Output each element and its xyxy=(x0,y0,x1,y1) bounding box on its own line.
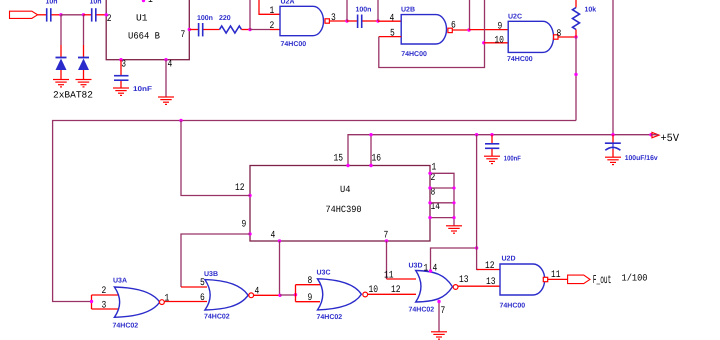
svg-text:74HC390: 74HC390 xyxy=(326,204,362,215)
svg-text:1: 1 xyxy=(432,162,437,173)
nand U2D xyxy=(485,256,561,310)
node junction xyxy=(490,133,493,136)
svg-text:5: 5 xyxy=(390,29,395,40)
nand U2C xyxy=(494,13,561,63)
wire U2B pin5 loop xyxy=(379,0,485,68)
wire U4 pin7 riser to U3D pin11 xyxy=(387,241,417,279)
wire to U2B pin4 xyxy=(378,20,401,22)
node U4 pin15 xyxy=(346,164,349,167)
node U1 pin3 xyxy=(119,58,122,61)
svg-text:14: 14 xyxy=(431,202,441,213)
ground xyxy=(53,80,69,87)
node junction xyxy=(294,293,297,296)
ground xyxy=(158,97,174,104)
diode D1 BAT82 xyxy=(56,15,67,80)
svg-text:12: 12 xyxy=(485,261,495,272)
node junction xyxy=(611,133,614,136)
svg-text:2: 2 xyxy=(431,173,436,184)
ladder junctions right xyxy=(452,186,455,189)
node junction xyxy=(179,119,182,122)
svg-text:74HC02: 74HC02 xyxy=(113,323,139,330)
wire +5V to U2D pin12 xyxy=(477,135,500,270)
wire U4 pin12 xyxy=(181,121,250,196)
nor U3D xyxy=(384,263,469,318)
svg-text:3: 3 xyxy=(331,13,336,24)
wire xyxy=(469,29,508,31)
wire xyxy=(38,14,46,16)
resistor R1 220 xyxy=(219,15,242,33)
wire U3D pin7 GND xyxy=(438,302,440,332)
svg-text:4: 4 xyxy=(168,60,173,71)
wire U2A out xyxy=(330,20,348,22)
svg-text:8: 8 xyxy=(308,276,313,287)
wire U4 pin9 to U3B pin5 xyxy=(181,234,250,287)
wire xyxy=(52,14,62,16)
node U1 pin4 xyxy=(164,58,167,61)
node junction xyxy=(369,133,372,136)
node junction xyxy=(467,28,470,31)
node U1 pin1 top xyxy=(142,0,145,2)
svg-text:74HC02: 74HC02 xyxy=(409,306,435,313)
ground xyxy=(605,157,621,164)
svg-text:12: 12 xyxy=(235,183,245,194)
node junction xyxy=(475,133,478,136)
node U3D pin7 xyxy=(437,300,440,303)
svg-text:74HC00: 74HC00 xyxy=(281,41,307,48)
svg-text:10n: 10n xyxy=(90,0,102,6)
node junction xyxy=(649,133,652,136)
svg-text:100uF/16v: 100uF/16v xyxy=(625,154,658,162)
node junction xyxy=(59,13,62,16)
svg-text:1: 1 xyxy=(148,0,153,6)
svg-text:100nF: 100nF xyxy=(504,156,522,163)
svg-text:6: 6 xyxy=(200,293,205,304)
wire +5V riser from top xyxy=(612,0,614,135)
node U4 pin9 xyxy=(248,232,251,235)
wire riser xyxy=(469,0,471,30)
svg-text:13: 13 xyxy=(459,275,469,286)
+5V arrow xyxy=(651,132,679,145)
node U4 pin1 xyxy=(428,172,431,175)
svg-text:2xBAT82: 2xBAT82 xyxy=(53,90,93,101)
wire riser xyxy=(346,0,348,21)
node junction xyxy=(345,19,348,22)
wire U2A pin1 xyxy=(259,0,280,14)
wire pin16 riser xyxy=(370,135,372,166)
svg-text:+5V: +5V xyxy=(661,133,680,145)
svg-text:U2D: U2D xyxy=(502,256,516,263)
node U4 pin4 xyxy=(278,239,281,242)
svg-text:10n: 10n xyxy=(46,0,58,6)
wire to U2A pin2 xyxy=(250,29,270,31)
resistor R2 10k xyxy=(573,0,597,37)
ground xyxy=(113,88,129,95)
IC U1 U664B xyxy=(106,0,189,71)
node U4 pin7 xyxy=(385,239,388,242)
nand U2B xyxy=(390,7,456,58)
U4 right ladder pins 1,2,8,14 xyxy=(430,173,454,226)
node junction xyxy=(376,19,379,22)
capacitor C5 100n xyxy=(356,6,372,28)
wire xyxy=(347,20,357,22)
ground xyxy=(446,226,462,233)
capacitor C1 10n xyxy=(46,0,58,22)
svg-text:5: 5 xyxy=(200,278,205,289)
svg-text:16: 16 xyxy=(372,154,382,165)
svg-text:4: 4 xyxy=(390,13,395,24)
node junction xyxy=(475,246,478,249)
wire U4 pin4 riser xyxy=(279,241,281,295)
wire xyxy=(84,14,92,16)
wire xyxy=(280,294,296,296)
svg-text:74HC00: 74HC00 xyxy=(507,56,533,63)
svg-text:15: 15 xyxy=(334,154,344,165)
svg-text:100n: 100n xyxy=(197,15,213,22)
wire U3A out to U3B pin6 xyxy=(164,301,207,303)
svg-text:U1: U1 xyxy=(136,13,148,24)
input connector tag xyxy=(10,11,38,18)
node junction xyxy=(82,13,85,16)
capacitor C2 10n xyxy=(90,0,102,22)
node junction xyxy=(574,73,577,76)
svg-text:1/100: 1/100 xyxy=(622,273,648,284)
wire xyxy=(97,14,107,16)
nor U3C xyxy=(296,270,379,322)
nand U2A xyxy=(270,0,336,48)
wire xyxy=(362,20,378,22)
wire feedback long xyxy=(53,37,576,302)
ground xyxy=(76,80,92,87)
capacitor C6 100nF xyxy=(485,135,521,163)
wire U3B out xyxy=(254,294,280,296)
wire U1 pin4 xyxy=(165,60,167,97)
diode D2 BAT82 xyxy=(78,15,89,80)
nor U3B xyxy=(200,271,259,321)
svg-text:10: 10 xyxy=(494,35,504,46)
svg-text:7: 7 xyxy=(181,30,186,41)
wire riser xyxy=(249,0,251,30)
wire U3C out to U3D pin12 xyxy=(368,293,416,295)
wire xyxy=(61,14,84,16)
svg-text:10nF: 10nF xyxy=(133,86,153,93)
svg-text:U664 B: U664 B xyxy=(128,31,160,42)
svg-text:9: 9 xyxy=(242,220,247,231)
node U4 pin8 xyxy=(428,201,431,204)
wire U2B out to U2C pin9 xyxy=(453,29,470,31)
node junction xyxy=(278,294,281,297)
svg-text:12: 12 xyxy=(391,285,401,296)
svg-text:U3C: U3C xyxy=(317,270,331,277)
capacitor C7 100uF/16v xyxy=(605,135,658,163)
node U4 pin2 xyxy=(428,186,431,189)
svg-text:10k: 10k xyxy=(585,6,597,14)
svg-text:100n: 100n xyxy=(356,6,372,13)
ground xyxy=(431,332,447,339)
svg-text:1: 1 xyxy=(270,6,275,17)
svg-text:F_out: F_out xyxy=(593,273,612,287)
svg-text:U3A: U3A xyxy=(113,278,127,285)
svg-text:U4: U4 xyxy=(340,184,351,195)
node U4 pin14 xyxy=(428,216,431,219)
svg-text:4: 4 xyxy=(433,264,438,275)
wire U3D out to U2D pin13 xyxy=(458,285,500,287)
output connector tag F_out xyxy=(568,273,648,288)
svg-text:U2B: U2B xyxy=(401,7,415,14)
svg-text:U3B: U3B xyxy=(204,271,218,278)
svg-text:74HC02: 74HC02 xyxy=(317,314,343,321)
node U1 pin7 xyxy=(188,28,191,31)
svg-text:4: 4 xyxy=(271,231,276,242)
wire +5V rail xyxy=(348,135,651,166)
wire xyxy=(203,29,219,31)
svg-text:2: 2 xyxy=(102,286,107,297)
wire U2D out xyxy=(548,278,568,280)
wire pin7 xyxy=(189,29,198,31)
svg-text:74HC02: 74HC02 xyxy=(204,314,230,321)
svg-text:8: 8 xyxy=(557,29,562,40)
svg-text:9: 9 xyxy=(308,293,313,304)
wire U2C out xyxy=(558,36,576,38)
svg-text:74HC00: 74HC00 xyxy=(500,303,526,310)
wire xyxy=(242,29,251,31)
node U2C pin10 xyxy=(482,41,485,44)
svg-text:1: 1 xyxy=(165,294,170,305)
nor U3A xyxy=(92,278,170,330)
svg-text:11: 11 xyxy=(384,271,394,282)
node U4 pin12 xyxy=(248,194,251,197)
svg-text:13: 13 xyxy=(486,277,496,288)
wire U3D pin14 VCC xyxy=(431,248,477,271)
svg-text:220: 220 xyxy=(219,15,231,22)
node junction xyxy=(90,300,93,303)
node junction xyxy=(574,35,577,38)
svg-text:7: 7 xyxy=(441,306,446,317)
IC U4 74HC390 xyxy=(235,154,440,242)
svg-text:U2A: U2A xyxy=(281,0,295,6)
node junction xyxy=(248,28,251,31)
svg-text:1: 1 xyxy=(424,264,429,275)
svg-text:3: 3 xyxy=(102,301,107,312)
svg-text:U3D: U3D xyxy=(409,263,423,270)
svg-text:U2C: U2C xyxy=(508,13,522,20)
capacitor C3 10nF xyxy=(114,60,153,93)
svg-text:9: 9 xyxy=(498,22,503,33)
svg-text:74HC00: 74HC00 xyxy=(401,51,427,58)
ground xyxy=(484,156,500,163)
node U1 pin2 xyxy=(105,13,108,16)
wire riser xyxy=(377,0,379,21)
wire U2C pin10 xyxy=(484,42,508,44)
svg-text:2: 2 xyxy=(270,21,275,32)
capacitor C4 100n xyxy=(197,15,213,37)
node U4 pin16 xyxy=(369,164,372,167)
node U3D pin14 xyxy=(429,269,432,272)
